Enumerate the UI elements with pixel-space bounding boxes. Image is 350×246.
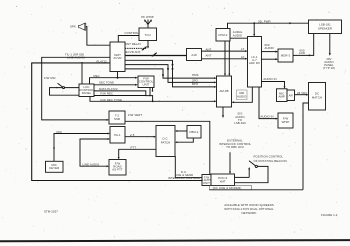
svg-text:FBM-2: FBM-2: [190, 130, 199, 134]
svg-text:NETWORK: NETWORK: [241, 211, 256, 215]
svg-text:SEC TONE: SEC TONE: [99, 81, 114, 85]
wire xcvr out E: [125, 69, 217, 79]
wire RECVR ANT (thick) to A18: [125, 55, 187, 57]
wire DC PATCH bottom to T/W LIGHT: [175, 157, 202, 178]
box PA-1: [110, 127, 125, 144]
wire AM-3B bottom arrow: [222, 107, 224, 118]
wire LF right AUDIO IN to mic amp: [262, 82, 286, 89]
label 28 VDC: [297, 91, 307, 95]
label LT top: [241, 47, 244, 51]
wire horn to xcvr: [86, 27, 110, 46]
svg-text:MATCH: MATCH: [312, 96, 322, 100]
wire PA-1 line audio loop to F/W ROAD: [80, 138, 110, 167]
label TIL-1 LINE AUDIO: [65, 53, 85, 60]
label F/W MIC: [44, 76, 56, 80]
wire interlock into HOC-6 top: [229, 152, 231, 174]
label SPK: [70, 24, 76, 28]
box TCU: [139, 28, 157, 41]
connector X on ant relay line: [142, 47, 147, 51]
switch F/W MIC loop: [50, 83, 80, 95]
labels HMS 2PO BPO: [192, 73, 199, 86]
caption figure number: [321, 213, 338, 217]
label ANT RELAY: [125, 42, 141, 46]
wire LF bottom to F/W WHIP: [259, 87, 278, 120]
svg-text:LSB-810: LSB-810: [234, 121, 246, 125]
wire DATA PL4723: [94, 91, 153, 101]
wire PL4722 trunk (left + bottom bus): [32, 63, 202, 181]
svg-text:FIGURE 1-2: FIGURE 1-2: [321, 213, 338, 217]
wire A18 out bottom: [202, 58, 248, 60]
svg-text:PA-1: PA-1: [114, 133, 121, 137]
svg-text:25L PWR: 25L PWR: [258, 19, 271, 23]
label POTENTIOMETER CONTROL: [254, 155, 287, 163]
svg-text:REC: REC: [94, 74, 100, 78]
box FBM-2: [187, 126, 201, 139]
box A18: [187, 49, 202, 61]
antenna HF WHIP label: [141, 15, 154, 19]
label D.C. LINE & SEND INTERLOCK CONTROL: [168, 170, 201, 180]
svg-text:STM-2027: STM-2027: [44, 209, 58, 213]
wire xcvr bottom down to REC line: [117, 72, 119, 79]
box F/W WHIP: [278, 113, 293, 128]
box AM-3B: [217, 76, 232, 107]
label ANT bottom: [206, 54, 212, 58]
box MDR-3: [278, 49, 293, 62]
label F/W REC: [101, 92, 114, 96]
label AURAL AUDIO: [233, 30, 243, 37]
svg-text:F/W MIC: F/W MIC: [44, 76, 56, 80]
box LOC CONTROL PANEL: [79, 84, 94, 97]
svg-text:FPM-2: FPM-2: [219, 33, 228, 37]
wire PA-1 out to DC PATCH: [125, 136, 156, 138]
svg-text:UNIT: UNIT: [143, 83, 150, 87]
label F/W REC TONE: [101, 98, 123, 102]
caption STM-2027: [44, 209, 58, 213]
junction dots on nested bends: [162, 64, 174, 76]
label 600 AUD near speaker corner: [299, 48, 305, 55]
svg-text:HF WHIP: HF WHIP: [141, 15, 154, 19]
svg-text:AUDIO IN: AUDIO IN: [260, 115, 273, 119]
wire FPM-2 bottom to AM-3B (2): [228, 41, 230, 76]
wire panel top riser: [81, 62, 83, 84]
box D.C. PATCH: [156, 126, 175, 157]
label LINE AUDIO: [83, 162, 100, 166]
svg-text:WHIP: WHIP: [282, 120, 290, 124]
speaker horn icon top-left: [79, 23, 86, 30]
wire into LF box top: [253, 23, 255, 36]
svg-text:LT: LT: [241, 47, 244, 51]
box LSB-181 SPEAKER: [309, 20, 342, 34]
svg-text:AUDIO: AUDIO: [265, 46, 275, 50]
svg-text:LF: LF: [241, 55, 245, 59]
wire DC PATCH left out to F/W ROAD: [118, 149, 156, 159]
label MIC: [57, 130, 62, 134]
bracket label DC LINE & MODEM: [209, 185, 251, 190]
wire CONTROL (xcvr top to TCU): [118, 36, 139, 43]
label RECVR ANT: [124, 50, 141, 54]
svg-text:MDR-3: MDR-3: [281, 54, 291, 58]
wire LF bottom to AM-3B (600 audio): [232, 87, 253, 103]
label ANT top: [206, 47, 212, 51]
svg-text:AM-3B: AM-3B: [219, 89, 228, 93]
label PL4722: [97, 60, 108, 64]
caption center: [224, 203, 274, 215]
wire ant relay (dashed): [125, 47, 147, 49]
svg-text:PTT: PTT: [131, 146, 137, 150]
label 25L PWR: [258, 19, 271, 23]
svg-text:OF ROTATING BEACON: OF ROTATING BEACON: [254, 159, 287, 163]
svg-text:TO DBF LRU: TO DBF LRU: [226, 145, 244, 149]
wire MDR-3 to speaker: [293, 34, 314, 57]
wire xcvr out C: [125, 60, 217, 88]
svg-text:CONTROL: CONTROL: [125, 31, 140, 35]
svg-text:F/W REC TONE: F/W REC TONE: [101, 98, 123, 102]
box FPM-2: [216, 29, 230, 42]
label LF bottom: [241, 55, 245, 59]
box MIC AMP: [277, 89, 288, 102]
wire AR to DC MATCH: [295, 94, 309, 96]
svg-text:SPK: SPK: [70, 24, 76, 28]
label SEC TONE: [99, 81, 114, 85]
svg-text:AS PTT: AS PTT: [112, 167, 123, 171]
wire MIC (keyer to PA-1): [53, 133, 110, 162]
wire F/W REC: [94, 95, 146, 97]
wire SEC TONE: [94, 84, 138, 86]
wire FPM-2 top to speaker line: [228, 22, 309, 28]
junction dot speaker line: [253, 22, 255, 24]
label 600 AUDIO (above input): [265, 43, 275, 50]
label AUDIO IN (mic amp): [263, 77, 276, 81]
svg-text:AUD: AUD: [299, 51, 305, 55]
wire REC (panel top to F/W control unit): [90, 77, 138, 84]
svg-text:SSB: SSB: [114, 117, 120, 121]
wire FPM-2 right to LF box: [230, 37, 248, 39]
wire FBM-2 bottom to DC PATCH right: [175, 138, 193, 143]
label 28V AUDIO PANEL: [323, 57, 335, 70]
box F/W CONTROL UNIT: [138, 76, 154, 88]
box MIC KEYER: [46, 161, 64, 172]
svg-text:PANEL: PANEL: [82, 91, 92, 95]
svg-text:ADF RX: ADF RX: [249, 61, 260, 65]
svg-text:LINE AUDIO: LINE AUDIO: [83, 162, 100, 166]
svg-text:RECVR ANT: RECVR ANT: [124, 50, 141, 54]
box DC MATCH: [309, 83, 326, 111]
svg-text:MIC: MIC: [57, 130, 62, 134]
svg-text:F/W VERT: F/W VERT: [128, 113, 142, 117]
svg-text:AUDIO IN: AUDIO IN: [263, 77, 276, 81]
connector X on recvr ant line: [152, 53, 157, 57]
box T-2 SSB: [109, 111, 125, 124]
wire xcvr out D: [125, 65, 217, 84]
wire speaker down to audio panel: [329, 34, 331, 56]
label SIG AUDIO TO LSB-810: [234, 112, 246, 126]
box XCVR 618T: [110, 42, 125, 72]
wire fw control bottom drops: [149, 88, 153, 97]
wire TIL-1 trunk to T-2 box: [42, 57, 110, 121]
wire DC MATCH down long: [303, 103, 309, 190]
svg-text:AMP: AMP: [278, 94, 284, 98]
svg-text:XMT: XMT: [220, 179, 226, 183]
svg-text:F/W REC: F/W REC: [101, 92, 114, 96]
label DATA PL4723: [99, 87, 118, 91]
label REC: [94, 74, 100, 78]
box T/W LIGHT UNIT: [202, 175, 211, 186]
switch rotating beacon: [235, 161, 269, 183]
wire T-2 right long down to HOC area: [125, 121, 210, 174]
label F/W VERT: [128, 113, 142, 117]
svg-text:ANT RELAY: ANT RELAY: [125, 42, 141, 46]
box AR: [287, 90, 295, 101]
svg-text:A18: A18: [191, 53, 197, 57]
svg-text:HMS: HMS: [192, 73, 199, 77]
svg-text:ANT: ANT: [206, 54, 212, 58]
svg-text:BPO: BPO: [192, 82, 199, 86]
label CONTROL: [125, 31, 140, 35]
label 600 AUDIO: [237, 90, 248, 100]
svg-text:XCVR: XCVR: [113, 56, 121, 60]
svg-text:AR: AR: [289, 93, 293, 97]
wire long bottom return to DC MATCH: [209, 189, 303, 191]
svg-text:UNIT: UNIT: [203, 181, 210, 185]
svg-text:AUDIO: AUDIO: [233, 33, 243, 37]
wire A18 out top: [202, 50, 248, 52]
wire LF right to MDR-3 top input: [262, 51, 279, 53]
svg-text:AUDIO: AUDIO: [237, 94, 247, 98]
svg-text:SPEAKER: SPEAKER: [318, 27, 332, 31]
svg-text:PATCH: PATCH: [161, 141, 171, 145]
svg-text:INTERLOCK CONTROL: INTERLOCK CONTROL: [168, 176, 201, 180]
wire TCU down to ant relay line: [147, 41, 149, 49]
wire F/W REC TONE long to AM-3B: [90, 97, 217, 103]
label 2-5: [130, 133, 135, 137]
label PTT: [131, 146, 137, 150]
svg-text:28 VDC: 28 VDC: [297, 91, 307, 95]
wire FPM-2 bottom to AM-3B (1): [224, 41, 226, 76]
wire LF right to MDR-3 bottom input: [262, 58, 279, 60]
svg-text:ANT: ANT: [206, 47, 212, 51]
svg-text:KEYER: KEYER: [49, 166, 59, 170]
label EXTERNAL INTERLOCK CONTROL: [219, 138, 252, 149]
svg-text:DATA PL4723: DATA PL4723: [99, 87, 118, 91]
label AUDIO IN (whip): [260, 115, 273, 119]
box F/W ROAD AS PTT: [109, 160, 126, 176]
antenna HF WHIP: [144, 20, 152, 29]
svg-text:2-5: 2-5: [130, 133, 135, 137]
box LF-ADF RCVR (tall): [248, 37, 262, 88]
bottom page rule: [0, 240, 350, 241]
svg-text:TCU: TCU: [145, 33, 151, 37]
wire FBM-2 to DC PATCH: [175, 130, 187, 132]
svg-text:(TYP 18): (TYP 18): [323, 66, 335, 70]
box HOC-6: [211, 174, 235, 186]
